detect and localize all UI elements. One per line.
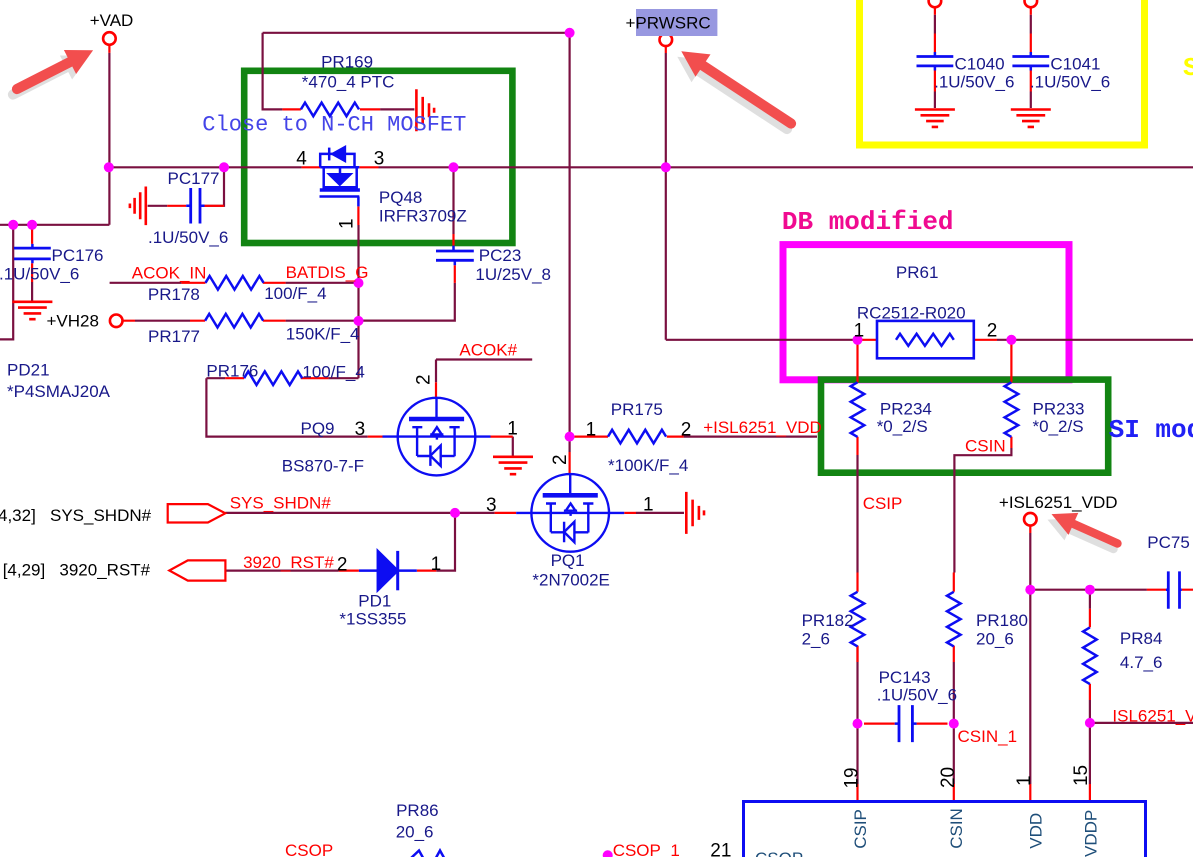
svg-text:PC75: PC75 (1147, 533, 1190, 552)
red stub PQ48 gate (357, 206, 359, 225)
svg-text:3: 3 (486, 495, 497, 516)
svg-text:SYS_SHDN#: SYS_SHDN# (230, 494, 332, 513)
svg-text:*1SS355: *1SS355 (339, 610, 406, 629)
ground PC177 (left-pointing) (130, 187, 146, 226)
wire PR176 right (328, 377, 358, 379)
svg-text:+PRWSRC: +PRWSRC (626, 14, 711, 33)
svg-text:.1U/50V_6: .1U/50V_6 (877, 686, 957, 705)
svg-text:2: 2 (337, 555, 348, 576)
wire 3920_RST# (225, 569, 338, 571)
wire PD1 cathode up to node (436, 513, 455, 571)
magenta annotation box DB modified (783, 245, 1069, 380)
svg-text:4: 4 (296, 149, 307, 170)
svg-text:ACOK_IN: ACOK_IN (132, 263, 207, 282)
svg-text:ACOK#: ACOK# (459, 340, 517, 359)
svg-text:20_6: 20_6 (976, 630, 1014, 649)
wire PC23 top (452, 167, 454, 234)
red stubs C1041 (1030, 7, 1032, 92)
arrow pointing to +VAD (17, 50, 93, 89)
svg-text:PR234: PR234 (880, 399, 932, 418)
wire PR234 column (856, 455, 858, 784)
capacitor C1040 (917, 57, 954, 66)
svg-text:3920_RST#: 3920_RST# (243, 553, 334, 572)
red stub PQ9 source (491, 436, 513, 438)
red stub +ISL6251_VDD terminal (1029, 526, 1031, 533)
resistor PR182 zigzag vertical (851, 592, 865, 647)
svg-text:1: 1 (854, 321, 865, 342)
svg-text:PD1: PD1 (358, 592, 391, 611)
capacitor C1041 (1012, 57, 1049, 66)
resistor PR61 RC2512-R020 box (877, 321, 974, 358)
svg-text:CSOP: CSOP (755, 849, 803, 857)
svg-text:1: 1 (507, 419, 518, 440)
wire PC177 branch (148, 167, 224, 206)
resistor PR233 zigzag vertical (1005, 382, 1019, 437)
ground PQ9 source (493, 457, 533, 474)
wire PQ48 gate vertical (357, 225, 359, 378)
svg-text:2_6: 2_6 (802, 630, 830, 649)
resistor PR86 zigzag (clipped at bottom) (409, 851, 461, 857)
svg-text:PQ1: PQ1 (551, 551, 585, 570)
red stubs PR180 (953, 573, 955, 663)
wire PQ9 source to ground (512, 437, 514, 456)
resistor PR180 zigzag vertical (947, 592, 961, 647)
svg-text:*100K/F_4: *100K/F_4 (608, 456, 688, 475)
svg-text:RC2512-R020: RC2512-R020 (857, 304, 966, 323)
svg-text:.1U/50V_6: .1U/50V_6 (148, 228, 228, 247)
svg-text:+ISL6251_VDD: +ISL6251_VDD (999, 493, 1118, 512)
terminal +VAD (103, 32, 116, 45)
svg-text:PR176: PR176 (206, 361, 258, 380)
svg-text:PR178: PR178 (148, 285, 200, 304)
svg-text:PR61: PR61 (896, 263, 939, 282)
wire PC176 bottom (31, 282, 33, 301)
wire ACOK_IN left (110, 282, 182, 284)
svg-text:CSOP_1: CSOP_1 (613, 841, 680, 857)
svg-text:VDDP: VDDP (1082, 810, 1101, 857)
svg-text:1: 1 (586, 420, 597, 441)
wire VDDP lower (1089, 700, 1091, 784)
svg-text:CSIP: CSIP (851, 809, 870, 849)
svg-text:1: 1 (1014, 775, 1035, 786)
wire PR176 down to PQ9 gate (206, 378, 367, 436)
svg-text:PC177: PC177 (168, 169, 220, 188)
svg-text:PC143: PC143 (879, 668, 931, 687)
wire PR61 bus y=339.8 (666, 339, 1193, 341)
svg-text:100/F_4: 100/F_4 (264, 284, 326, 303)
svg-text:CSIP: CSIP (863, 494, 903, 513)
capacitor PC177 (191, 188, 200, 224)
svg-text:PQ48: PQ48 (379, 188, 422, 207)
wire VDDP top (1089, 590, 1091, 609)
svg-text:Close to N-CH MOSFET: Close to N-CH MOSFET (202, 113, 466, 138)
svg-text:VDD: VDD (1027, 813, 1046, 849)
red stub PQ9 drain (435, 382, 437, 397)
resistor PR176 zigzag (244, 371, 302, 385)
red stub PQ9 gate (368, 436, 383, 438)
red pin stub +VAD (108, 45, 110, 53)
svg-text:+ISL6251_VDD: +ISL6251_VDD (703, 418, 822, 437)
svg-text:1: 1 (337, 218, 358, 229)
red stub PQ1 drain (568, 452, 570, 474)
red stubs PR233 (974, 340, 1011, 448)
red stubs C1040 (934, 7, 936, 53)
red stubs PC177 (167, 205, 224, 207)
ground PC176 (12, 302, 52, 319)
svg-text:PC23: PC23 (479, 246, 522, 265)
svg-text:BS870-7-F: BS870-7-F (282, 457, 364, 476)
svg-text:PC176: PC176 (52, 246, 104, 265)
svg-text:PD21: PD21 (7, 361, 50, 380)
svg-text:1U/25V_8: 1U/25V_8 (475, 265, 551, 284)
svg-text:*P4SMAJ20A: *P4SMAJ20A (7, 382, 111, 401)
svg-text:2: 2 (414, 374, 435, 385)
svg-text:1: 1 (431, 554, 442, 575)
red stubs PR175 (574, 436, 683, 438)
svg-text:20_6: 20_6 (396, 822, 434, 841)
red stubs PR177 (123, 320, 286, 322)
svg-text:CSIN: CSIN (965, 437, 1006, 456)
wire PR177 right (286, 320, 359, 322)
svg-text:PR182: PR182 (802, 611, 854, 630)
red stubs PC75 (1147, 589, 1193, 591)
svg-text:*2N7002E: *2N7002E (532, 571, 610, 590)
wire PQ1 drain from node (568, 437, 570, 452)
yellow annotation box top right (860, 0, 1145, 145)
svg-text:3: 3 (374, 149, 385, 170)
wire PQ1 source to ground (636, 512, 684, 514)
wire left horizontal at y=224.8 (0, 224, 109, 226)
red stub PQ1 gate (495, 512, 517, 514)
red pin stub +PRWSRC (665, 46, 667, 53)
wire VDD to PC75 (1030, 589, 1147, 591)
svg-text:.1U/50V_6: .1U/50V_6 (1030, 73, 1110, 92)
terminal C1040 top (929, 0, 942, 7)
capacitor PC143 (899, 705, 912, 742)
svg-text:.1U/50V_6: .1U/50V_6 (934, 73, 1014, 92)
capacitor PC23 (436, 251, 474, 260)
node junction dots (104, 162, 114, 172)
svg-text:*0_2/S: *0_2/S (877, 417, 928, 436)
wire +VH28 to PR177 (135, 320, 190, 322)
terminal +VH28 (110, 315, 123, 328)
svg-text:PR180: PR180 (976, 611, 1028, 630)
svg-text:BATDIS_G: BATDIS_G (286, 263, 369, 282)
red stubs PR84 (1089, 609, 1091, 700)
red stub pin15 (1089, 784, 1091, 802)
wire long vertical x=569.6 (568, 33, 570, 437)
svg-text:PR84: PR84 (1120, 629, 1163, 648)
wire PR233 bottom jog CSIN (954, 448, 1011, 573)
svg-text:1: 1 (643, 495, 654, 516)
transistor PQ9 BS870-7-F (383, 398, 491, 476)
wire PR176 left corner (206, 377, 225, 379)
svg-text:21: 21 (710, 841, 731, 857)
svg-text:.1U/50V_6: .1U/50V_6 (0, 265, 79, 284)
red stub pin19 (856, 784, 858, 802)
svg-text:PR86: PR86 (396, 801, 439, 820)
node +PRWSRC label (highlighted) (636, 9, 717, 36)
wire main bus y=167.3 (108, 166, 1193, 168)
svg-text:CSIN_1: CSIN_1 (958, 727, 1018, 746)
svg-text:4,32] SYS_SHDN#: 4,32] SYS_SHDN# (0, 506, 152, 525)
wire VDD column (1029, 533, 1031, 784)
wire PR180 column lower (953, 662, 955, 784)
svg-text:2: 2 (681, 420, 692, 441)
wire top y=32.8 (263, 32, 570, 34)
wire +VAD vertical (108, 53, 110, 225)
svg-text:PR233: PR233 (1033, 399, 1085, 418)
red stubs PD1 (339, 569, 437, 571)
wire PC23 bottom to gate node (359, 283, 455, 321)
capacitor PC176 (14, 248, 51, 259)
svg-text:PR169: PR169 (321, 53, 373, 72)
svg-text:+VH28: +VH28 (47, 311, 99, 330)
resistor PR178 zigzag (206, 276, 264, 290)
transistor PQ1 2N7002E (516, 474, 624, 552)
red stubs PQ48 pins (302, 166, 379, 168)
svg-text:IRFR3709Z: IRFR3709Z (379, 207, 467, 226)
wire SYS_SHDN# (225, 512, 494, 514)
svg-text:100/F_4: 100/F_4 (302, 363, 364, 382)
svg-text:DB modified: DB modified (782, 207, 954, 237)
ground PQ1 source (right-pointing) (686, 492, 704, 534)
red stub pin1 (1029, 784, 1031, 802)
resistor PR169 zigzag (301, 103, 359, 117)
red stub PQ1 source (624, 512, 636, 514)
red stubs PR176 (225, 377, 328, 379)
ground C1041 (1011, 110, 1051, 127)
svg-text:PQ9: PQ9 (301, 419, 335, 438)
wire PR175 right +ISL6251_VDD (684, 436, 817, 438)
terminal C1041 top (1025, 0, 1038, 7)
capacitor PC75 (1168, 571, 1179, 608)
wire BATDIS_G (286, 282, 359, 284)
svg-text:CSOP: CSOP (285, 841, 333, 857)
ground PR169 (right-pointing) (416, 89, 434, 131)
transistor PQ48 IRFR3709Z (320, 147, 360, 206)
arrow shadows (13, 56, 1114, 550)
red stubs PC143 (864, 722, 948, 724)
svg-text:C1040: C1040 (955, 55, 1005, 74)
port flag 3920_RST# (169, 560, 225, 580)
svg-text:[4,29] 3920_RST#: [4,29] 3920_RST# (3, 561, 151, 580)
resistor PR234 zigzag vertical (851, 382, 865, 437)
wire +PRWSRC vertical (665, 53, 667, 340)
resistor PR175 zigzag (608, 430, 666, 444)
svg-text:15: 15 (1071, 765, 1092, 786)
red stub pin20 (953, 784, 955, 802)
red stubs PC176 (31, 227, 33, 282)
wire PR169 right to ground (380, 108, 414, 110)
svg-text:2: 2 (550, 454, 571, 465)
wire C1041 (1030, 15, 1032, 108)
green annotation box SI modified (821, 380, 1108, 473)
ground C1040 (915, 110, 955, 127)
svg-text:SI modified: SI modified (1109, 415, 1193, 445)
red stubs PR178 (181, 282, 285, 284)
terminal +PRWSRC (660, 34, 673, 47)
wire ACOK# (436, 360, 532, 383)
svg-text:*470_4 PTC: *470_4 PTC (302, 73, 395, 92)
diode PD1 1SS355 (359, 551, 417, 590)
svg-text:150K/F_4: 150K/F_4 (286, 324, 360, 343)
svg-text:PR177: PR177 (148, 327, 200, 346)
wire C1040 (934, 15, 936, 108)
svg-text:2: 2 (987, 321, 998, 342)
red stubs PR234 (858, 340, 878, 455)
arrow pointing to +PRWSRC (681, 51, 791, 123)
wire top left vertical to PR169 (263, 33, 283, 110)
svg-text:20: 20 (938, 767, 959, 788)
red stubs PC23 (454, 234, 455, 283)
resistor PR177 zigzag (205, 314, 263, 328)
green annotation box around PQ48 (244, 71, 512, 243)
wire from junction down left loop (0, 225, 13, 340)
svg-text:+VAD: +VAD (90, 11, 134, 30)
port flag SYS_SHDN# (168, 504, 226, 522)
svg-text:3: 3 (355, 419, 366, 440)
svg-text:S: S (1183, 53, 1193, 83)
svg-text:ISL6251_VDD: ISL6251_VDD (1112, 707, 1193, 726)
svg-text:19: 19 (842, 767, 863, 788)
arrow pointing to +ISL6251_VDD (1052, 513, 1118, 544)
svg-text:*0_2/S: *0_2/S (1033, 417, 1084, 436)
op-amp U1 charger IC box (partial) (744, 802, 1146, 857)
terminal +ISL6251_VDD (1024, 513, 1037, 526)
red stub C1040 bottom (934, 71, 936, 92)
svg-text:C1041: C1041 (1050, 55, 1100, 74)
svg-text:PR175: PR175 (611, 400, 663, 419)
svg-text:CSIN: CSIN (947, 808, 966, 849)
resistor PR84 zigzag vertical (1083, 627, 1097, 684)
red stubs PR182 (856, 573, 858, 663)
svg-text:4.7_6: 4.7_6 (1120, 653, 1163, 672)
red pin stubs PR169 (282, 108, 380, 110)
wire ISL6251_VDD right (1090, 722, 1193, 724)
